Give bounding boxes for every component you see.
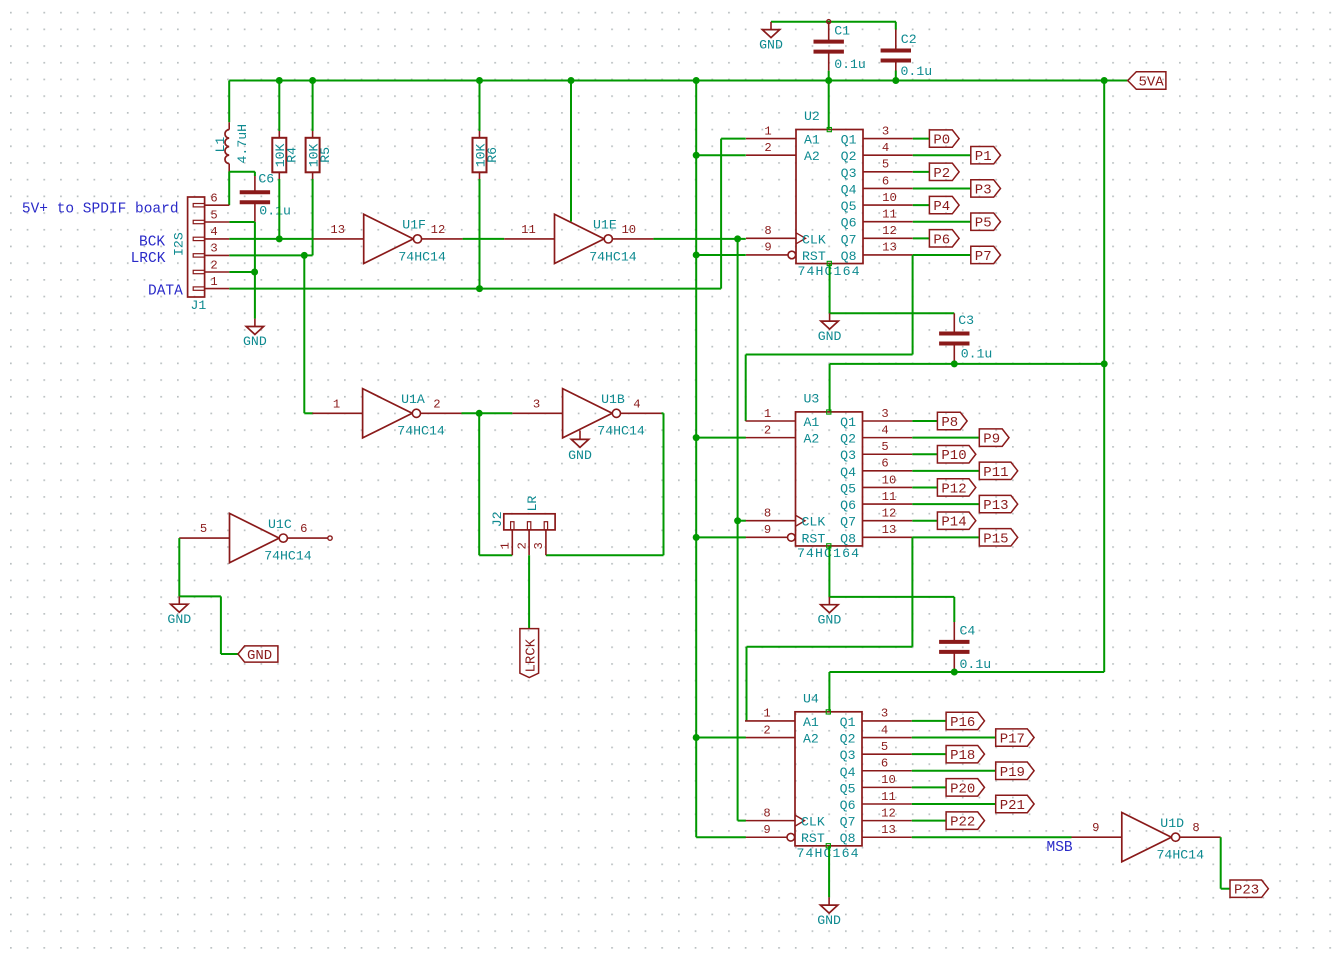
wire U2 GND pin down [829, 264, 831, 314]
svg-text:1: 1 [764, 407, 771, 421]
hierarchical label P8 [937, 412, 967, 431]
svg-text:4.7uH: 4.7uH [235, 124, 250, 164]
svg-text:R4: R4 [285, 147, 300, 163]
svg-text:DATA: DATA [148, 284, 183, 300]
inverter U1C (74HC14) [179, 513, 328, 563]
wire U4 Q6 to P21 [912, 803, 996, 805]
wire LRCK down to U1A [303, 255, 305, 413]
svg-text:Q6: Q6 [841, 216, 857, 231]
junction C2 / rail [892, 77, 899, 84]
svg-text:GND: GND [818, 612, 842, 627]
svg-text:9: 9 [1092, 821, 1099, 835]
wire rail to R6 [479, 81, 481, 132]
hierarchical label P12 [937, 479, 975, 498]
junction 5V bus / U2 RST [693, 251, 700, 258]
resistor R5 [306, 131, 333, 179]
ground (U1B) [568, 431, 592, 463]
junction rail / 5V bus [693, 77, 700, 84]
svg-text:GND: GND [167, 612, 191, 627]
ground (U3) [818, 597, 842, 628]
wire U4 GND pin down [828, 846, 830, 897]
svg-text:C3: C3 [958, 313, 974, 328]
svg-text:9: 9 [763, 823, 770, 837]
wire U3 Q2 to P9 [912, 437, 979, 439]
wire U4 Q7 to P22 [912, 820, 946, 822]
hierarchical label P13 [979, 495, 1017, 514]
svg-text:2: 2 [210, 258, 217, 272]
wire U1B out down [663, 413, 665, 555]
svg-text:J1: J1 [191, 298, 207, 313]
svg-text:13: 13 [882, 241, 897, 255]
svg-text:L1: L1 [213, 137, 228, 153]
wire U4 Q4 to P19 [912, 770, 996, 772]
shift register U3 (74HC164) [746, 391, 913, 561]
svg-text:C4: C4 [960, 624, 976, 639]
hierarchical label P3 [971, 180, 1001, 199]
svg-text:Q4: Q4 [840, 465, 856, 480]
capacitor C1 pins [828, 22, 830, 42]
hierarchical label P1 [971, 147, 1001, 166]
svg-text:0.1u: 0.1u [834, 57, 866, 72]
svg-text:5: 5 [881, 440, 888, 454]
svg-text:13: 13 [881, 823, 896, 837]
wire 5V bus to U4 A2 [696, 737, 746, 739]
wire U4 Q5 to P20 [912, 786, 946, 788]
wire 5V bus to U3 A2 [696, 437, 746, 439]
svg-text:4: 4 [633, 397, 640, 411]
junction U1A out / J2 branch [476, 410, 483, 417]
svg-text:P1: P1 [975, 149, 992, 165]
hierarchical label P5 [971, 213, 1001, 232]
wire L1 to C6 top [229, 171, 255, 173]
wire U2 Q2 to P1 [913, 154, 971, 156]
svg-text:A2: A2 [804, 432, 820, 447]
svg-text:P20: P20 [950, 781, 975, 797]
wire U2 Q8 route [746, 354, 913, 356]
capacitor C4 [939, 624, 991, 673]
capacitor C6 [240, 171, 291, 218]
ground (U4) [817, 897, 841, 928]
svg-text:13: 13 [330, 223, 345, 237]
hierarchical label P11 [979, 462, 1017, 481]
junction CLK bus / U3 CLK [734, 517, 741, 524]
hierarchical label P4 [929, 196, 959, 215]
wire down to U3 VCC [829, 364, 831, 412]
wire U2 Q1 to P0 [913, 138, 930, 140]
ground (top, C1/C2) [759, 22, 783, 53]
hierarchical label P17 [996, 729, 1034, 748]
wire 5V bus (A2/RST feeds) [695, 81, 697, 838]
svg-text:2: 2 [764, 141, 771, 155]
wire U4 Q8 to U1D [912, 836, 1072, 838]
wire down to U4 VCC [828, 672, 830, 712]
wire C6/pin5 down to ground [254, 222, 256, 319]
svg-text:1: 1 [764, 124, 771, 138]
wire 5VA rail [229, 80, 1104, 82]
svg-text:10: 10 [882, 191, 897, 205]
capacitor C2 [881, 32, 933, 79]
wire CLK bus to U3 CLK [738, 520, 746, 522]
svg-text:12: 12 [431, 223, 446, 237]
svg-text:5V+ to SPDIF board: 5V+ to SPDIF board [22, 202, 179, 218]
svg-text:Q8: Q8 [840, 531, 856, 546]
svg-text:3: 3 [881, 707, 888, 721]
svg-text:5: 5 [200, 522, 207, 536]
svg-text:5: 5 [881, 740, 888, 754]
wire U3 Q8 to P15 [912, 536, 979, 538]
svg-text:U1F: U1F [402, 218, 426, 233]
hierarchical label P22 [946, 812, 984, 831]
junction 5V bus / U3 A2 [693, 434, 700, 441]
svg-text:C1: C1 [834, 24, 850, 39]
wire to gnd label run [179, 595, 221, 597]
wire right 5V riser [1103, 81, 1105, 673]
junction R6 / DATA line [476, 285, 483, 292]
wire U2 gnd to C3 top [830, 312, 955, 314]
svg-text:Q5: Q5 [840, 481, 856, 496]
svg-text:74HC164: 74HC164 [797, 846, 860, 861]
svg-text:CLK: CLK [801, 815, 825, 830]
wire down to U4 A1 [746, 647, 748, 721]
svg-text:11: 11 [881, 790, 896, 804]
svg-text:CLK: CLK [802, 515, 826, 530]
svg-text:Q8: Q8 [841, 249, 857, 264]
svg-text:0.1u: 0.1u [961, 347, 993, 362]
inverter U1D (74HC14) [1072, 813, 1221, 863]
ground (U2) [818, 313, 842, 344]
wire U3 gnd to C4 top [829, 596, 954, 598]
svg-text:Q2: Q2 [840, 432, 856, 447]
wire R6 to DATA line [479, 179, 481, 289]
wire rail to U2 VCC [828, 81, 830, 130]
wire C4 bottom / 5V row [829, 671, 1104, 673]
svg-text:3: 3 [533, 397, 540, 411]
svg-text:P11: P11 [983, 465, 1008, 481]
wire down to GND label [220, 596, 222, 654]
svg-text:6: 6 [881, 457, 888, 471]
svg-text:2: 2 [515, 542, 529, 549]
svg-text:Q6: Q6 [840, 498, 856, 513]
wire to 5VA flag [1104, 80, 1128, 82]
wire C2 bottom to rail [895, 71, 897, 81]
svg-text:6: 6 [300, 522, 307, 536]
wire U2 Q5 to P4 [913, 204, 930, 206]
wire U2 Q4 to P3 [913, 187, 971, 189]
svg-text:74HC14: 74HC14 [589, 249, 637, 264]
junction rail / right riser [1101, 77, 1108, 84]
svg-text:74HC14: 74HC14 [1157, 848, 1205, 863]
wire R4 to BCK line [278, 179, 280, 239]
svg-text:BCK: BCK [139, 234, 165, 250]
wire U2 Q8 to P7 [913, 254, 971, 256]
svg-text:U1C: U1C [268, 517, 292, 532]
hierarchical label P0 [929, 130, 959, 149]
svg-text:8: 8 [764, 507, 771, 521]
svg-text:P8: P8 [941, 415, 958, 431]
svg-text:LRCK: LRCK [131, 251, 166, 267]
wire rail to R5 [312, 81, 314, 132]
inverter U1F (74HC14) [313, 214, 462, 264]
wire U2 Q6 to P5 [913, 221, 971, 223]
svg-text:3: 3 [881, 407, 888, 421]
wire C2 top [895, 22, 897, 30]
hierarchical label P9 [979, 429, 1009, 448]
wire C4 top [953, 597, 955, 622]
resistor R4 [272, 131, 299, 179]
svg-text:GND: GND [759, 37, 783, 52]
wire U3 Q7 to P14 [912, 520, 937, 522]
wire U4 Q2 to P17 [912, 737, 996, 739]
capacitor C6 pins [254, 176, 256, 192]
svg-text:Q1: Q1 [841, 133, 857, 148]
svg-text:A2: A2 [804, 149, 820, 164]
capacitor C2 pins [895, 30, 897, 51]
hierarchical label P23 [1230, 880, 1268, 899]
svg-text:74HC14: 74HC14 [397, 424, 445, 439]
svg-text:1: 1 [210, 275, 217, 289]
wire C1 bottom to rail [828, 71, 830, 81]
wire C3 bottom / 5V row [830, 363, 1104, 365]
wire 5V bus to U2 RST [696, 254, 746, 256]
svg-text:1: 1 [333, 397, 340, 411]
svg-text:11: 11 [882, 208, 897, 222]
svg-text:C6: C6 [258, 171, 274, 186]
svg-text:10: 10 [881, 773, 896, 787]
svg-text:11: 11 [521, 223, 536, 237]
svg-text:GND: GND [817, 913, 841, 928]
hierarchical label P21 [996, 795, 1034, 814]
svg-text:4: 4 [210, 225, 217, 239]
svg-text:5: 5 [210, 208, 217, 222]
svg-text:Q7: Q7 [840, 515, 856, 530]
svg-text:6: 6 [881, 757, 888, 771]
wire U3 Q8 down [911, 537, 913, 646]
wire LRCK row [229, 254, 304, 256]
inverter U1B (74HC14) [512, 389, 661, 439]
svg-text:GND: GND [243, 334, 267, 349]
svg-text:Q5: Q5 [840, 781, 856, 796]
junction CLK bus / U2 CLK [734, 235, 741, 242]
wire U4 Q3 to P18 [912, 753, 946, 755]
capacitor C4 pins [953, 622, 955, 642]
connector J1 (I2S) [172, 192, 230, 314]
svg-text:P0: P0 [933, 133, 950, 149]
svg-text:8: 8 [763, 806, 770, 820]
junction C3 bottom [951, 360, 958, 367]
svg-text:A2: A2 [803, 732, 819, 747]
svg-text:A1: A1 [804, 133, 820, 148]
svg-text:U1D: U1D [1160, 816, 1184, 831]
svg-text:12: 12 [881, 806, 896, 820]
svg-text:8: 8 [1192, 821, 1199, 835]
svg-text:0.1u: 0.1u [960, 657, 992, 672]
hierarchical label P6 [929, 230, 959, 249]
svg-text:P3: P3 [975, 182, 992, 198]
svg-text:10: 10 [621, 223, 636, 237]
svg-text:P19: P19 [1000, 765, 1025, 781]
svg-text:U1B: U1B [601, 392, 625, 407]
junction 5V bus / U2 A2 [693, 152, 700, 159]
wire to C6 [254, 172, 256, 176]
hierarchical label P10 [937, 446, 975, 465]
ground (J1) [243, 319, 267, 350]
svg-text:LR: LR [525, 496, 540, 512]
wire U3 Q6 to P13 [912, 503, 979, 505]
svg-text:P23: P23 [1234, 883, 1259, 899]
svg-text:U4: U4 [803, 691, 819, 706]
svg-text:P6: P6 [933, 232, 950, 248]
svg-text:13: 13 [882, 523, 897, 537]
junction J1 pin2 / ground wire [251, 269, 258, 276]
svg-text:Q1: Q1 [840, 415, 856, 430]
svg-text:2: 2 [764, 423, 771, 437]
svg-text:Q6: Q6 [840, 798, 856, 813]
wire 5V bus to U3 RST [696, 536, 746, 538]
junction R5 / LRCK line [301, 252, 308, 259]
junction rail / U1E branch [568, 77, 575, 84]
hierarchical label P19 [996, 762, 1034, 781]
svg-text:Q3: Q3 [841, 166, 857, 181]
junction rail / R5 [309, 77, 316, 84]
svg-text:Q7: Q7 [840, 815, 856, 830]
wire J2 pin2 to LRCK flag [528, 555, 530, 628]
svg-text:U1E: U1E [593, 218, 617, 233]
wire down to U3 A1 [745, 355, 747, 422]
svg-text:Q5: Q5 [841, 199, 857, 214]
wire U2 Q7 to P6 [913, 237, 930, 239]
junction 5V bus / U3 RST [693, 534, 700, 541]
svg-text:Q2: Q2 [840, 732, 856, 747]
svg-text:Q3: Q3 [840, 448, 856, 463]
wire U1B out corner [662, 412, 664, 414]
hierarchical label P16 [946, 712, 984, 731]
svg-text:3: 3 [532, 542, 546, 549]
wire L1 to J1 pin6 [228, 172, 230, 206]
wire down to J2 pin1 [478, 413, 480, 555]
svg-text:P13: P13 [983, 498, 1008, 514]
svg-text:RST: RST [802, 249, 826, 264]
capacitor C3 pins [953, 313, 955, 333]
ground (U1C) [167, 596, 191, 627]
svg-text:1: 1 [763, 707, 770, 721]
svg-text:Q2: Q2 [841, 149, 857, 164]
svg-text:74HC14: 74HC14 [398, 249, 446, 264]
svg-text:Q4: Q4 [840, 765, 856, 780]
svg-text:Q8: Q8 [840, 831, 856, 846]
svg-text:5VA: 5VA [1139, 75, 1165, 91]
wire rail to U1E [570, 81, 572, 222]
svg-text:P10: P10 [941, 448, 966, 464]
junction rail / R6 [476, 77, 483, 84]
svg-text:74HC14: 74HC14 [264, 549, 312, 564]
wire U1E out to U2 CLK [653, 238, 745, 240]
wire J1 pin5 to C6 bottom [229, 221, 255, 223]
shift register U2 (74HC164) [746, 109, 913, 279]
svg-text:P14: P14 [941, 515, 966, 531]
junction rail / R4 [276, 77, 283, 84]
svg-text:R5: R5 [318, 147, 333, 163]
svg-text:MSB: MSB [1047, 840, 1073, 856]
svg-text:Q1: Q1 [840, 715, 856, 730]
svg-text:LRCK: LRCK [523, 638, 539, 672]
wire to P23 [1221, 888, 1230, 890]
svg-text:2: 2 [763, 723, 770, 737]
wire U1F out to U1E in [463, 238, 505, 240]
junction right riser / C3 row [1101, 360, 1108, 367]
svg-text:GND: GND [568, 448, 592, 463]
wire U3 Q4 to P11 [912, 470, 979, 472]
wire rail to R4 [278, 81, 280, 132]
hierarchical label P20 [946, 779, 984, 798]
wire CLK bus [737, 239, 739, 821]
wire J1 pin2 to ground run [229, 271, 254, 273]
svg-text:11: 11 [882, 490, 897, 504]
svg-text:Q4: Q4 [841, 182, 857, 197]
junction C1 / U2 VCC [825, 77, 832, 84]
svg-text:U2: U2 [804, 109, 820, 124]
hierarchical label P15 [979, 529, 1017, 548]
net flag GND (global label) [238, 646, 278, 664]
wire U1A out to U1B in [462, 412, 513, 414]
svg-text:74HC14: 74HC14 [597, 424, 645, 439]
wire U4 Q1 to P16 [912, 720, 946, 722]
wire DATA row [229, 288, 721, 290]
svg-text:GND: GND [247, 648, 272, 664]
svg-text:9: 9 [764, 241, 771, 255]
connector J2 (LR) [490, 496, 555, 556]
wire 5V bus to U2 A2 [696, 154, 746, 156]
svg-text:1: 1 [499, 542, 513, 549]
svg-text:P12: P12 [941, 481, 966, 497]
svg-text:GND: GND [818, 329, 842, 344]
svg-text:4: 4 [881, 723, 888, 737]
wire DATA riser to U2 A1 [720, 139, 722, 289]
svg-text:P17: P17 [1000, 732, 1025, 748]
svg-text:U3: U3 [804, 391, 820, 406]
svg-text:12: 12 [882, 507, 897, 521]
wire CLK bus to U4 CLK [738, 820, 746, 822]
wire gnd to C1 C2 top [771, 21, 896, 23]
svg-text:R6: R6 [485, 147, 500, 163]
inverter U1A (74HC14) [312, 389, 461, 439]
svg-text:RST: RST [801, 831, 825, 846]
svg-text:2: 2 [433, 397, 440, 411]
svg-text:8: 8 [764, 224, 771, 238]
wire to U1A input [304, 412, 313, 414]
svg-text:4: 4 [882, 141, 889, 155]
inverter U1E (74HC14) [504, 214, 653, 264]
svg-text:P15: P15 [983, 531, 1008, 547]
svg-text:3: 3 [882, 124, 889, 138]
svg-text:J2: J2 [490, 511, 505, 527]
unconnected end marker C1 top [827, 20, 831, 24]
wire R5 down [312, 179, 314, 255]
svg-text:10: 10 [882, 473, 897, 487]
capacitor C3 [939, 313, 992, 362]
inductor L1 4.7uH [213, 122, 250, 171]
svg-text:5: 5 [882, 158, 889, 172]
svg-text:4: 4 [881, 423, 888, 437]
svg-text:P5: P5 [975, 216, 992, 232]
svg-text:I2S: I2S [172, 232, 187, 256]
shift register U4 (74HC164) [745, 691, 912, 861]
svg-text:A1: A1 [803, 715, 819, 730]
wire to J2 pin1 [479, 554, 512, 556]
junction C4 bottom [951, 669, 958, 676]
wire rail to L1 [228, 81, 230, 123]
svg-text:C2: C2 [901, 32, 917, 47]
net flag LRCK [520, 629, 539, 678]
